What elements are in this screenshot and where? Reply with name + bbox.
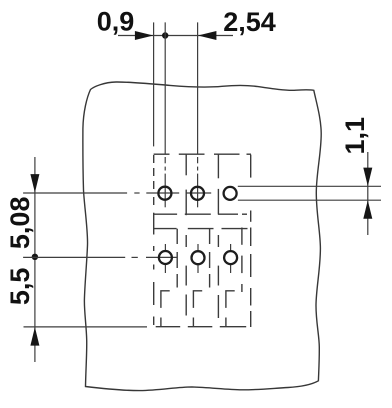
- arrow pointing up at y=326.9 (bottom reference): [30, 327, 39, 346]
- housing outline bottom edge (dashed, y=326.7): [156, 326, 247, 328]
- centre line stubs row 2 column 2: [197, 244, 199, 273]
- dimension 0,9 / 2,54 : horizontal dimension line at top: [118, 35, 233, 37]
- svg-text:0,9: 0,9: [97, 6, 135, 36]
- board outline (wavy torn-edge PCB section): [83, 82, 321, 391]
- extension line bottom reference y=326.9: [24, 326, 148, 328]
- centre line stubs row 2 column 1: [164, 244, 166, 273]
- dimension 1,1 : vertical dimension line at right (hole diameter): [367, 152, 369, 235]
- svg-text:2,54: 2,54: [223, 7, 276, 37]
- hole 3 bottom tangent line y=200.2: [238, 199, 381, 201]
- housing vertical line V0 x=153.7 (dashed left edge): [153, 155, 155, 325]
- housing vertical line V2 x=218.4 (pin separator): [217, 154, 219, 318]
- svg-text:5,08: 5,08: [5, 197, 35, 250]
- svg-text:5,5: 5,5: [5, 268, 35, 306]
- arrow pointing down at y=186.3 (hole top tangent): [363, 168, 372, 187]
- hole 6 (row 2, col 3): [224, 251, 237, 264]
- centre line row 2 (dash-dot through hole 4): [23, 256, 176, 258]
- extension line A (housing left edge x=153.6): [153, 22, 155, 146]
- centre line column 1 (dash-dot below extension): [164, 157, 166, 207]
- hole 4 (row 2, col 1): [159, 251, 172, 264]
- housing pair line VP2 x=209.6: [209, 229, 211, 288]
- dot at first hole column centre (x=165.2): [162, 32, 168, 38]
- housing vertical line V3 x=250.7 (right edge): [250, 155, 252, 327]
- extension line B (hole column 1 centre x=165.2): [164, 22, 166, 153]
- arrow pointing right at x=153.6 (0,9 left reference): [135, 31, 154, 40]
- dimension 5,08 / 5,5 : vertical dimension line at left: [34, 157, 36, 362]
- hole 1 (row 1, col 1): [158, 187, 171, 200]
- corner mark 1 (x=160.9): [161, 291, 170, 327]
- arrow pointing up at y=200.2 (hole bottom tangent): [363, 200, 372, 219]
- extension line C (hole column 2 centre x=197.6): [197, 22, 199, 154]
- centre line column 2 (dash-dot below extension): [197, 157, 199, 207]
- hole 3 (row 1, col 3): [224, 187, 237, 200]
- hole 3 top tangent line y=186.3: [238, 185, 381, 187]
- housing vertical line V1 x=186.2 (pin separator): [185, 154, 187, 315]
- centre line stubs row 2 column 3: [230, 244, 232, 273]
- housing outline row1 bottom edge (dashed, y=214.2): [154, 213, 247, 215]
- housing pair line VP1 x=177.2: [176, 229, 178, 288]
- hole 2 (row 1, col 2): [191, 187, 204, 200]
- arrow pointing down at y=192.8 (row 1 centre): [30, 174, 39, 193]
- svg-text:1,1: 1,1: [340, 117, 370, 155]
- housing pair line VP3 x=241.9: [241, 228, 243, 293]
- arrow pointing left at x=197.6 (2,54 right reference): [198, 31, 217, 40]
- hole 5 (row 2, col 2): [192, 251, 205, 264]
- housing outline top edge (dashed, y=154.2): [154, 153, 251, 155]
- corner mark 3 (x=225.9): [226, 291, 235, 327]
- dot at row 2 centre (y=256.8): [32, 254, 38, 260]
- centre line row 1 (dash-dot through holes 1-2): [23, 192, 211, 194]
- housing outline row2 top edge (dashed, y=228.6): [154, 228, 248, 230]
- corner mark 2 (x=193.4): [193, 291, 202, 327]
